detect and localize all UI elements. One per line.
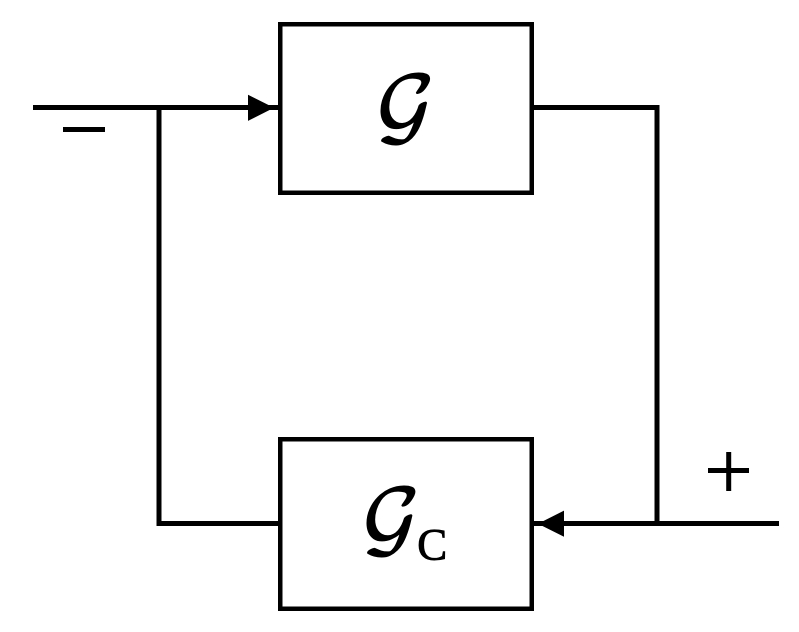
wire: feedback branch vertical (left) [157,105,162,524]
label subscript C of Gc [419,530,445,560]
arrowhead into Gc [538,511,564,537]
minus sign [63,127,105,132]
wire: right vertical down [655,105,660,524]
label mathcal G (plant) [381,73,430,145]
arrowhead into G [248,95,274,121]
wire: input line into Gc (bottom right) [534,521,779,526]
block G (plant box) [280,24,532,193]
wire: G output horizontal (top right) [534,105,657,110]
label mathcal G (controller) [367,486,415,557]
plus sign [708,468,749,473]
wire: input line into G [33,105,278,110]
wire: Gc output horizontal (bottom left) [157,521,279,526]
block Gc (controller box) [280,439,532,609]
